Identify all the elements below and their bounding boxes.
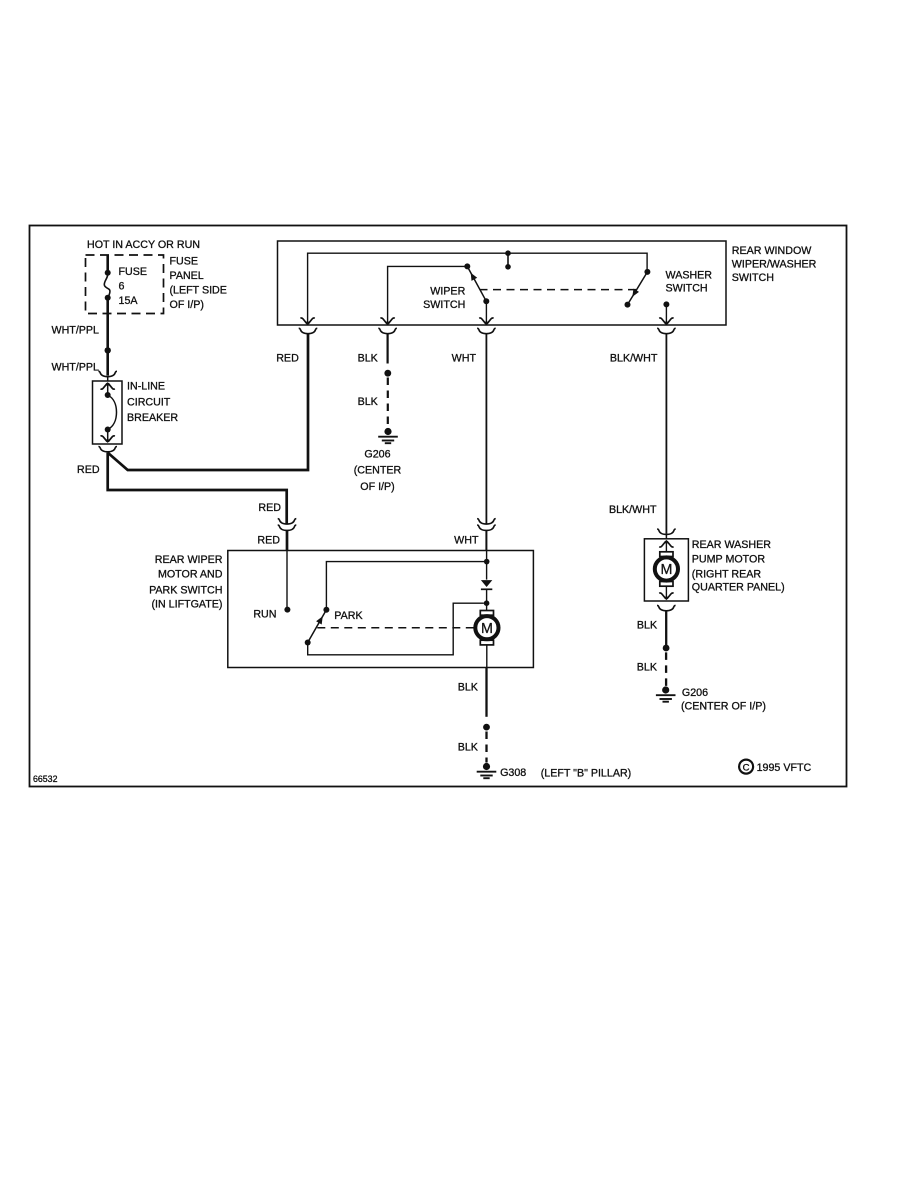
svg-text:BLK/WHT: BLK/WHT [610, 352, 658, 364]
copyright 1995 VFTC [739, 760, 753, 774]
svg-text:SWITCH: SWITCH [423, 299, 465, 311]
svg-text:C: C [743, 762, 750, 773]
svg-text:BREAKER: BREAKER [127, 412, 178, 424]
switch S1 wiper lever [464, 263, 470, 269]
node bus tap junction [505, 250, 511, 256]
svg-text:BLK: BLK [458, 681, 479, 693]
svg-text:FUSE: FUSE [170, 256, 199, 268]
svg-text:REAR WIPER: REAR WIPER [155, 554, 223, 566]
svg-text:(LEFT "B" PILLAR): (LEFT "B" PILLAR) [541, 768, 632, 780]
ground G308 [477, 763, 497, 778]
wire bus tap stub [507, 253, 509, 266]
wire feed into fuse [106, 255, 109, 273]
diode D1 [481, 580, 492, 587]
connector above washer pump [657, 529, 676, 534]
wire breaker output [107, 430, 109, 442]
wire diode to motor [486, 589, 488, 610]
wire RED to switch [108, 334, 308, 470]
wire park contact to motor node [308, 603, 484, 655]
pin arrow breaker output [101, 436, 115, 443]
svg-text:15A: 15A [119, 295, 139, 307]
svg-text:REAR WASHER: REAR WASHER [692, 539, 771, 551]
svg-text:PARK SWITCH: PARK SWITCH [149, 584, 222, 596]
wire wiper switch output [485, 301, 487, 324]
switch S2 washer lever [644, 269, 650, 275]
mechanical link dashed motor [317, 627, 473, 629]
svg-text:BLK: BLK [358, 396, 379, 408]
svg-text:PARK: PARK [334, 610, 363, 622]
svg-text:(CENTER OF I/P): (CENTER OF I/P) [681, 701, 766, 713]
wire motor to box edge [486, 645, 488, 668]
svg-text:PUMP MOTOR: PUMP MOTOR [692, 554, 766, 566]
svg-text:(CENTER: (CENTER [354, 465, 402, 477]
fuse panel dashed box [86, 255, 164, 314]
svg-text:IN-LINE: IN-LINE [127, 381, 165, 393]
svg-text:CIRCUIT: CIRCUIT [127, 396, 171, 408]
svg-text:WHT/PPL: WHT/PPL [51, 325, 99, 337]
ground G206 [378, 428, 398, 443]
svg-text:G308: G308 [500, 767, 526, 779]
wire breaker input [107, 383, 109, 395]
svg-text:SWITCH: SWITCH [666, 282, 708, 294]
svg-text:WIPER: WIPER [430, 285, 465, 297]
fuse F6 [105, 270, 111, 276]
wire BLK dashed to ground [485, 732, 487, 763]
svg-text:BLK: BLK [458, 742, 479, 754]
wire BLK dashed to ground [665, 652, 667, 686]
svg-text:WASHER: WASHER [666, 270, 713, 282]
wire input to pump motor [665, 541, 667, 552]
ground G206 [656, 686, 676, 701]
splice junction [105, 347, 111, 353]
node washer switch output contact [663, 301, 669, 307]
pin arrow breaker input [101, 382, 115, 389]
connector below switch box pin 3 [477, 328, 496, 333]
svg-text:REAR WINDOW: REAR WINDOW [732, 245, 812, 257]
svg-text:WIPER/WASHER: WIPER/WASHER [732, 258, 817, 270]
svg-text:BLK: BLK [637, 661, 658, 673]
connector below switch box pin 4 [657, 328, 676, 333]
node RUN contact [284, 607, 290, 613]
rear wiper motor box [228, 551, 534, 668]
rear washer pump motor box [644, 539, 688, 601]
svg-text:6: 6 [119, 280, 125, 292]
wire WHT into motor box [485, 531, 487, 551]
motor M washer pump [655, 552, 678, 586]
svg-text:RUN: RUN [253, 609, 276, 621]
svg-text:66532: 66532 [33, 774, 58, 784]
mechanical link dashed [480, 289, 638, 291]
svg-text:G206: G206 [682, 687, 708, 699]
splice junction BLK [663, 645, 670, 652]
circuit breaker element [105, 392, 111, 398]
svg-text:WHT: WHT [452, 352, 477, 364]
pin arrow washer pump output [659, 593, 673, 600]
in-line circuit breaker CB1 box [93, 381, 123, 444]
connector below switch box pin 2 [378, 328, 397, 333]
in-line connector RED [278, 519, 297, 531]
svg-text:WHT: WHT [454, 535, 479, 547]
svg-text:OF I/P): OF I/P) [170, 299, 204, 311]
svg-text:WHT/PPL: WHT/PPL [51, 361, 99, 373]
wire pump motor to box edge [665, 586, 667, 599]
splice junction BLK [384, 370, 391, 377]
wire RUN contact [286, 551, 288, 610]
node stub contact [505, 264, 511, 270]
pin arrow RED output [300, 318, 314, 325]
pin arrow washer pump input [659, 540, 673, 547]
wire BLK/WHT to washer pump [665, 334, 667, 534]
svg-text:1995 VFTC: 1995 VFTC [757, 762, 812, 774]
svg-text:HOT IN ACCY OR RUN: HOT IN ACCY OR RUN [87, 239, 200, 251]
connector below breaker [98, 447, 117, 452]
wire washer switch output [665, 304, 667, 324]
wire BLK washer ground [665, 611, 667, 647]
motor M rear wiper [475, 611, 498, 645]
svg-text:SWITCH: SWITCH [732, 272, 774, 284]
svg-text:BLK: BLK [358, 352, 379, 364]
svg-text:FUSE: FUSE [119, 266, 148, 278]
node WHT junction [484, 559, 490, 565]
svg-text:QUARTER PANEL): QUARTER PANEL) [692, 581, 785, 593]
svg-text:BLK: BLK [637, 620, 658, 632]
rear window wiper/washer switch box [278, 241, 727, 325]
wire BLK below motor [485, 668, 487, 717]
svg-text:RED: RED [77, 464, 100, 476]
pin arrow BLK output [380, 318, 394, 325]
svg-text:OF I/P): OF I/P) [360, 481, 394, 493]
connector above breaker [98, 371, 117, 376]
svg-text:(RIGHT REAR: (RIGHT REAR [692, 569, 762, 581]
node motor junction [484, 600, 490, 606]
pin arrow WHT output [479, 318, 493, 325]
svg-text:(LEFT SIDE: (LEFT SIDE [170, 285, 227, 297]
wire WHT switch to motor [485, 334, 487, 524]
wire connector to breaker box [107, 377, 109, 381]
pin arrow BLK/WHT output [659, 318, 673, 325]
wire park pivot to WHT node [326, 562, 484, 610]
wire WHT/PPL below fuse [106, 298, 109, 376]
svg-text:(IN LIFTGATE): (IN LIFTGATE) [151, 599, 222, 611]
splice junction BLK [483, 724, 490, 731]
svg-text:RED: RED [257, 535, 280, 547]
connector below switch box pin 1 [299, 328, 318, 333]
wire switch feed bus [308, 253, 647, 324]
wire RED to motor [108, 453, 287, 524]
wire wiper switch branch [388, 266, 468, 324]
svg-text:RED: RED [258, 502, 281, 514]
wire BLK dashed to ground [387, 378, 389, 428]
svg-text:G206: G206 [364, 448, 390, 460]
wire RED into motor box [286, 531, 289, 551]
wire BLK ground stub [387, 334, 389, 364]
wire WHT into box [486, 551, 488, 580]
switch S3 park lever [323, 607, 329, 613]
in-line connector WHT [477, 519, 496, 531]
svg-text:BLK/WHT: BLK/WHT [609, 504, 657, 516]
svg-text:MOTOR AND: MOTOR AND [158, 568, 223, 580]
svg-text:PANEL: PANEL [170, 270, 204, 282]
svg-text:RED: RED [276, 352, 299, 364]
connector below washer pump [657, 605, 676, 610]
